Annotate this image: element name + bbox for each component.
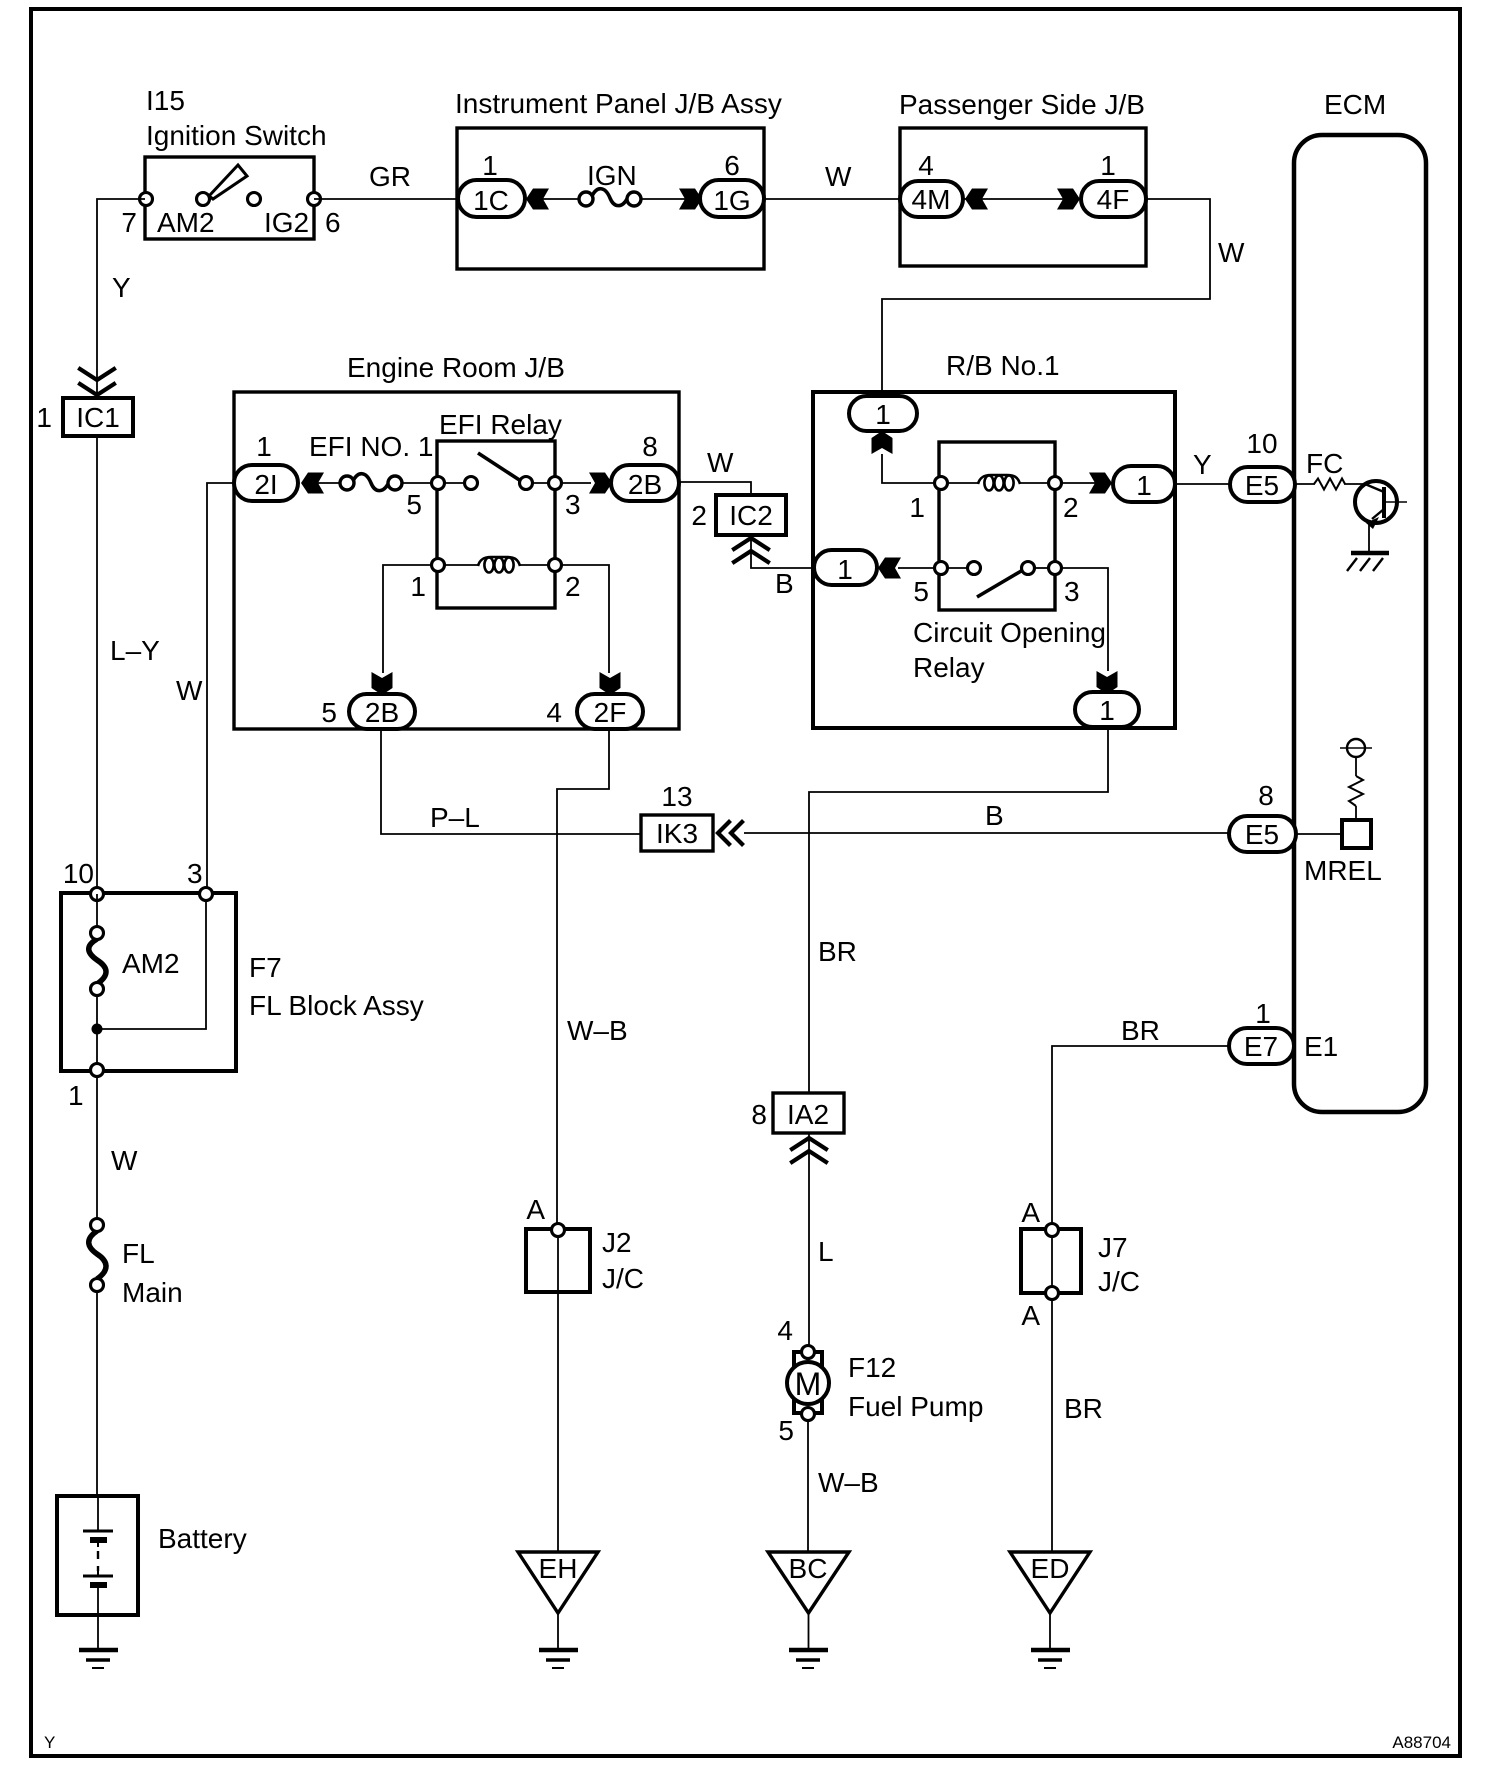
arrow into 4F bbox=[1057, 189, 1080, 210]
svg-text:A88704: A88704 bbox=[1392, 1733, 1451, 1752]
svg-text:4M: 4M bbox=[912, 184, 951, 215]
svg-text:J/C: J/C bbox=[1098, 1266, 1140, 1297]
svg-text:P–L: P–L bbox=[430, 802, 480, 833]
svg-text:M: M bbox=[795, 1366, 822, 1402]
COR switch contact 2 bbox=[1022, 562, 1035, 575]
svg-text:IG2: IG2 bbox=[264, 207, 309, 238]
arrow into 1C bbox=[526, 189, 549, 210]
FL pin 10 bbox=[91, 888, 104, 901]
connector 4F pin 1 bbox=[1081, 150, 1146, 217]
ignition switch lever bbox=[209, 165, 247, 199]
connector IK3 pin 13 bbox=[641, 781, 742, 851]
svg-text:1: 1 bbox=[36, 402, 52, 433]
arrow into left oval bbox=[878, 558, 901, 579]
svg-text:10: 10 bbox=[1246, 428, 1277, 459]
svg-text:3: 3 bbox=[565, 489, 581, 520]
wire 1C to fuse IGN bbox=[527, 198, 581, 200]
connector 2I pin 1 bbox=[234, 431, 298, 501]
EFI relay switch contact 2 bbox=[520, 477, 533, 490]
wire EFI relay pin3 to 2B bbox=[561, 482, 591, 484]
COR switch contact bbox=[968, 562, 981, 575]
EFI relay coil bbox=[444, 564, 478, 566]
wire fuse to EFI relay pin 5 bbox=[401, 482, 432, 484]
wire 4M to 4F bbox=[963, 198, 1081, 200]
connector IC2 bbox=[691, 495, 814, 568]
COR switch wire pin3 side bbox=[1035, 567, 1049, 569]
svg-text:J/C: J/C bbox=[602, 1263, 644, 1294]
svg-text:Y: Y bbox=[112, 272, 131, 303]
svg-text:A: A bbox=[1021, 1300, 1040, 1331]
COR coil bbox=[947, 482, 978, 484]
arrow into 2I bbox=[301, 473, 324, 494]
svg-text:BR: BR bbox=[1064, 1393, 1103, 1424]
COR switch lever bbox=[977, 567, 1028, 597]
ground chassis at transistor bbox=[1347, 553, 1389, 571]
FL pin 1 bbox=[91, 1064, 104, 1077]
svg-text:3: 3 bbox=[187, 858, 203, 889]
arrow into 4M bbox=[965, 189, 988, 210]
wire 1G to 4M, label W bbox=[764, 198, 900, 200]
svg-text:Engine Room J/B: Engine Room J/B bbox=[347, 352, 565, 383]
wire transistor emitter to ground bbox=[1368, 523, 1370, 551]
wire 4F to R/B No.1 top, label W bbox=[882, 199, 1210, 396]
ground triangle EH bbox=[518, 1552, 598, 1668]
svg-text:IGN: IGN bbox=[587, 160, 637, 191]
svg-text:E1: E1 bbox=[1304, 1031, 1338, 1062]
connector 1G pin 6 bbox=[700, 150, 764, 217]
svg-text:7: 7 bbox=[121, 207, 137, 238]
svg-text:1: 1 bbox=[68, 1080, 84, 1111]
EFI relay switch lever bbox=[478, 453, 524, 483]
ignition switch terminal 6 bbox=[308, 193, 321, 206]
svg-text:Battery: Battery bbox=[158, 1523, 247, 1554]
svg-text:2: 2 bbox=[565, 571, 581, 602]
ignition switch I15 bbox=[121, 85, 340, 239]
ECM box bbox=[1294, 89, 1426, 1112]
wire ignition pin6 to 1C, label GR bbox=[314, 198, 458, 200]
svg-text:1: 1 bbox=[1255, 998, 1271, 1029]
EFI relay switch contact bbox=[465, 477, 478, 490]
svg-text:F7: F7 bbox=[249, 952, 282, 983]
svg-text:IA2: IA2 bbox=[787, 1099, 829, 1130]
arrow down into bottom oval bbox=[1097, 671, 1118, 694]
svg-text:L–Y: L–Y bbox=[110, 635, 160, 666]
COR pin 1 bbox=[935, 477, 948, 490]
wire IK3 to E5(8), label B bbox=[744, 832, 1229, 834]
svg-text:W: W bbox=[176, 675, 203, 706]
wire IA2 to fuel pump, labels L and 4 bbox=[808, 1133, 810, 1349]
wire COR pin3 down to bottom oval bbox=[1061, 568, 1108, 671]
svg-text:E7: E7 bbox=[1244, 1031, 1278, 1062]
wire 2B(8) to IC2, label W bbox=[679, 482, 751, 495]
svg-text:Y: Y bbox=[1193, 449, 1212, 480]
Engine Room J/B box bbox=[234, 352, 679, 729]
svg-text:2F: 2F bbox=[594, 697, 627, 728]
svg-text:FL: FL bbox=[122, 1238, 155, 1269]
svg-text:1C: 1C bbox=[473, 185, 509, 216]
COR pin 3 bbox=[1049, 562, 1062, 575]
svg-text:1: 1 bbox=[1099, 695, 1115, 726]
svg-text:MREL: MREL bbox=[1304, 855, 1382, 886]
connector E5 pin 8 bbox=[1229, 780, 1296, 852]
svg-text:W–B: W–B bbox=[818, 1467, 879, 1498]
svg-text:ED: ED bbox=[1031, 1553, 1070, 1584]
fuse EFI NO. 1 bbox=[309, 431, 433, 491]
svg-text:W: W bbox=[825, 161, 852, 192]
svg-text:EFI Relay: EFI Relay bbox=[439, 409, 562, 440]
FL block assy F7 bbox=[61, 858, 424, 1111]
Instrument Panel J/B Assy box bbox=[455, 88, 782, 269]
FL pin 3 bbox=[200, 888, 213, 901]
connector E7 pin 1, label E1 bbox=[1229, 998, 1338, 1064]
ignition switch terminal IG2 bbox=[248, 193, 261, 206]
svg-text:BR: BR bbox=[818, 936, 857, 967]
connector 1C pin 1 bbox=[458, 150, 525, 217]
ignition switch terminal AM2 bbox=[197, 193, 210, 206]
wire bottom oval to IA2, label BR bbox=[809, 727, 1108, 1093]
wire AM2 to junction and pin3 branch bbox=[97, 894, 206, 1029]
EFI relay pin 1 bbox=[432, 559, 445, 572]
wire FL pin1 to FL Main, label W bbox=[96, 1076, 98, 1219]
wire COR pin2 to right oval bbox=[1061, 482, 1113, 484]
connector 1 bottom oval R/B bbox=[1075, 692, 1139, 727]
arrow into 1G bbox=[679, 189, 702, 210]
wire 2B(5) to IK3, label P-L bbox=[381, 729, 641, 834]
wire 2I to FL block pin 3, label W bbox=[207, 483, 234, 894]
svg-text:J7: J7 bbox=[1098, 1232, 1128, 1263]
svg-text:J2: J2 bbox=[602, 1227, 632, 1258]
svg-text:5: 5 bbox=[321, 697, 337, 728]
circuit opening relay bbox=[909, 442, 1106, 683]
svg-text:1: 1 bbox=[256, 431, 272, 462]
MREL driver inside ECM bbox=[1304, 739, 1382, 886]
connector 1 left oval R/B bbox=[814, 550, 877, 585]
svg-text:2B: 2B bbox=[628, 469, 662, 500]
svg-text:BR: BR bbox=[1121, 1015, 1160, 1046]
wire 2I to fuse EFI NO.1 bbox=[302, 482, 342, 484]
svg-text:2: 2 bbox=[691, 500, 707, 531]
wire EFI relay pin2 down to 2F(4) bbox=[561, 565, 609, 673]
fusible link FL Main bbox=[89, 1219, 183, 1309]
junction dot bbox=[92, 1024, 103, 1035]
svg-text:IK3: IK3 bbox=[656, 818, 698, 849]
svg-text:8: 8 bbox=[751, 1099, 767, 1130]
connector E5 pin 10 bbox=[1230, 428, 1295, 502]
EFI relay pin 2 bbox=[549, 559, 562, 572]
svg-text:B: B bbox=[775, 568, 794, 599]
wire IC1 to FL block pin 10, label L-Y bbox=[96, 436, 98, 894]
svg-text:Y: Y bbox=[44, 1733, 55, 1752]
wire battery to ground bbox=[97, 1615, 99, 1648]
svg-text:5: 5 bbox=[913, 576, 929, 607]
EFI relay bbox=[406, 409, 580, 608]
connector IC1 bbox=[36, 369, 133, 436]
svg-text:A: A bbox=[1021, 1197, 1040, 1228]
junction J7 J/C, pins A A bbox=[1021, 1197, 1140, 1331]
svg-text:1: 1 bbox=[1100, 150, 1116, 181]
wire J7 to ED, label BR bbox=[1051, 1299, 1053, 1552]
wire left oval arrow to COR pin5 bbox=[898, 567, 935, 569]
svg-text:Ignition Switch: Ignition Switch bbox=[146, 120, 327, 151]
svg-text:E5: E5 bbox=[1245, 470, 1279, 501]
svg-text:R/B No.1: R/B No.1 bbox=[946, 350, 1060, 381]
wire 2F(4) down to J2, label W-B bbox=[557, 729, 609, 1225]
connector 1 top oval R/B bbox=[849, 396, 917, 431]
svg-text:4: 4 bbox=[918, 150, 934, 181]
fuse IGN bbox=[579, 160, 641, 206]
svg-text:2: 2 bbox=[1063, 492, 1079, 523]
fuel pump F12 bbox=[778, 1346, 983, 1447]
svg-text:6: 6 bbox=[325, 207, 341, 238]
wire FL Main to battery bbox=[96, 1291, 98, 1496]
arrow into 2B bbox=[589, 473, 612, 494]
svg-text:IC2: IC2 bbox=[729, 500, 773, 531]
svg-text:5: 5 bbox=[406, 489, 422, 520]
wire E7 to J7, label BR bbox=[1052, 1046, 1229, 1224]
wire fuel pump to BC, label W-B bbox=[807, 1420, 809, 1552]
svg-text:8: 8 bbox=[1258, 780, 1274, 811]
svg-text:L: L bbox=[818, 1236, 834, 1267]
svg-text:BC: BC bbox=[789, 1553, 828, 1584]
svg-text:F12: F12 bbox=[848, 1352, 896, 1383]
wire right oval to E5(10), label Y bbox=[1175, 483, 1230, 485]
svg-text:1: 1 bbox=[875, 399, 891, 430]
svg-text:Relay: Relay bbox=[913, 652, 985, 683]
svg-text:GR: GR bbox=[369, 161, 411, 192]
svg-text:ECM: ECM bbox=[1324, 89, 1386, 120]
wire arrow to COR pin1 bbox=[882, 454, 935, 483]
svg-text:AM2: AM2 bbox=[122, 948, 180, 979]
svg-text:EFI NO. 1: EFI NO. 1 bbox=[309, 431, 433, 462]
ignition switch terminal 7 bbox=[140, 193, 153, 206]
connector 1 right oval R/B bbox=[1113, 466, 1175, 502]
svg-text:1: 1 bbox=[482, 150, 498, 181]
svg-text:4F: 4F bbox=[1097, 184, 1130, 215]
svg-text:5: 5 bbox=[778, 1415, 794, 1446]
svg-text:2B: 2B bbox=[365, 697, 399, 728]
COR switch wire pin5 side bbox=[947, 567, 967, 569]
svg-text:IC1: IC1 bbox=[76, 402, 120, 433]
svg-text:Circuit Opening: Circuit Opening bbox=[913, 617, 1106, 648]
EFI relay pin 5 bbox=[432, 477, 445, 490]
resistor FC bbox=[1314, 479, 1345, 490]
COR pin 5 bbox=[935, 562, 948, 575]
R/B No.1 box bbox=[813, 350, 1175, 728]
svg-text:Passenger Side J/B: Passenger Side J/B bbox=[899, 89, 1145, 120]
svg-text:3: 3 bbox=[1064, 576, 1080, 607]
COR pin 2 bbox=[1049, 477, 1062, 490]
arrow up into top oval bbox=[872, 431, 893, 454]
svg-text:I15: I15 bbox=[146, 85, 185, 116]
battery bbox=[57, 1496, 247, 1615]
svg-text:FC: FC bbox=[1306, 448, 1343, 479]
svg-text:1: 1 bbox=[837, 554, 853, 585]
wire EFI relay pin1 down to 2B(5) bbox=[383, 565, 432, 673]
svg-text:Instrument Panel J/B Assy: Instrument Panel J/B Assy bbox=[455, 88, 782, 119]
svg-text:1: 1 bbox=[410, 571, 426, 602]
EFI relay switch wire pin5 side bbox=[444, 482, 465, 484]
ground battery bbox=[79, 1650, 118, 1668]
svg-text:FL Block Assy: FL Block Assy bbox=[249, 990, 424, 1021]
connector 4M pin 4 bbox=[900, 150, 963, 217]
svg-text:1: 1 bbox=[909, 492, 925, 523]
svg-text:W: W bbox=[707, 447, 734, 478]
svg-text:E5: E5 bbox=[1245, 819, 1279, 850]
svg-text:W: W bbox=[111, 1145, 138, 1176]
transistor FC driver bbox=[1355, 481, 1407, 529]
Passenger Side J/B box bbox=[899, 89, 1146, 266]
EFI relay pin 3 bbox=[549, 477, 562, 490]
svg-text:W: W bbox=[1218, 237, 1245, 268]
connector IA2 pin 8 bbox=[751, 1093, 844, 1162]
svg-text:Fuel Pump: Fuel Pump bbox=[848, 1391, 983, 1422]
wire ignition pin7 to IC1, label Y bbox=[97, 199, 145, 398]
connector 2B pin 8 bbox=[611, 431, 679, 501]
svg-text:Main: Main bbox=[122, 1277, 183, 1308]
svg-text:10: 10 bbox=[63, 858, 94, 889]
EFI relay switch wire pin3 side bbox=[532, 482, 549, 484]
wire resistor to transistor bbox=[1344, 483, 1365, 485]
ground triangle BC bbox=[768, 1552, 849, 1668]
svg-text:2I: 2I bbox=[254, 469, 277, 500]
connector 2B pin 5 bottom bbox=[321, 694, 415, 729]
svg-text:13: 13 bbox=[661, 781, 692, 812]
svg-text:EH: EH bbox=[539, 1553, 578, 1584]
svg-text:AM2: AM2 bbox=[157, 207, 215, 238]
svg-text:6: 6 bbox=[724, 150, 740, 181]
junction J2 J/C, pin A bbox=[526, 1194, 644, 1294]
svg-text:4: 4 bbox=[546, 697, 562, 728]
wire E5(8) to MREL bbox=[1296, 833, 1342, 835]
svg-text:B: B bbox=[985, 800, 1004, 831]
svg-text:A: A bbox=[526, 1194, 545, 1225]
wire fuse IGN to 1G bbox=[641, 198, 701, 200]
arrow into 2F bottom bbox=[600, 672, 621, 695]
fusible link AM2 bbox=[89, 939, 106, 984]
wire E5 to FC resistor bbox=[1295, 483, 1315, 485]
arrow into 2B bottom bbox=[372, 672, 393, 695]
svg-text:W–B: W–B bbox=[567, 1015, 628, 1046]
wire J2 to EH bbox=[557, 1292, 559, 1552]
svg-text:1G: 1G bbox=[713, 185, 750, 216]
connector 2F pin 4 bottom bbox=[546, 694, 643, 729]
svg-text:1: 1 bbox=[1136, 470, 1152, 501]
arrow into right oval bbox=[1089, 473, 1112, 494]
ground triangle ED bbox=[1010, 1552, 1090, 1668]
svg-text:8: 8 bbox=[642, 431, 658, 462]
svg-text:4: 4 bbox=[777, 1315, 793, 1346]
